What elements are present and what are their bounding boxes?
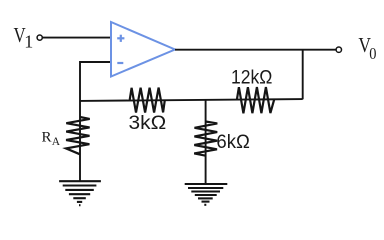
wire - input to left vertical [80, 62, 111, 181]
terminal V0 [336, 47, 341, 52]
ground middle [185, 184, 228, 205]
svg-text:R: R [42, 129, 52, 145]
resistor 6k zigzag [194, 122, 217, 156]
node V0 label [358, 33, 376, 63]
op-amp + pin mark [117, 35, 124, 42]
resistor RA zigzag [66, 117, 90, 154]
terminal V1 [37, 35, 42, 40]
op-amp U1 body [111, 22, 175, 77]
svg-text:0: 0 [369, 44, 376, 63]
svg-text:12kΩ: 12kΩ [231, 67, 272, 88]
svg-text:6kΩ: 6kΩ [216, 132, 250, 153]
wire feedback horizontal (through 12k and 3k) [80, 99, 303, 101]
wire feedback vertical [302, 50, 304, 100]
resistor 3k zigzag [130, 88, 165, 113]
svg-text:3kΩ: 3kΩ [129, 113, 167, 134]
label RA [42, 129, 61, 148]
svg-text:1: 1 [24, 32, 33, 52]
wire V1 to op-amp + input [42, 37, 111, 39]
svg-text:A: A [52, 136, 61, 148]
node V1 label [14, 23, 34, 52]
wire op-amp output to terminal [175, 49, 336, 51]
wire 6k vertical [205, 100, 207, 184]
resistor 12k zigzag [237, 87, 274, 113]
ground left [59, 181, 101, 205]
op-amp - pin mark [117, 62, 123, 64]
